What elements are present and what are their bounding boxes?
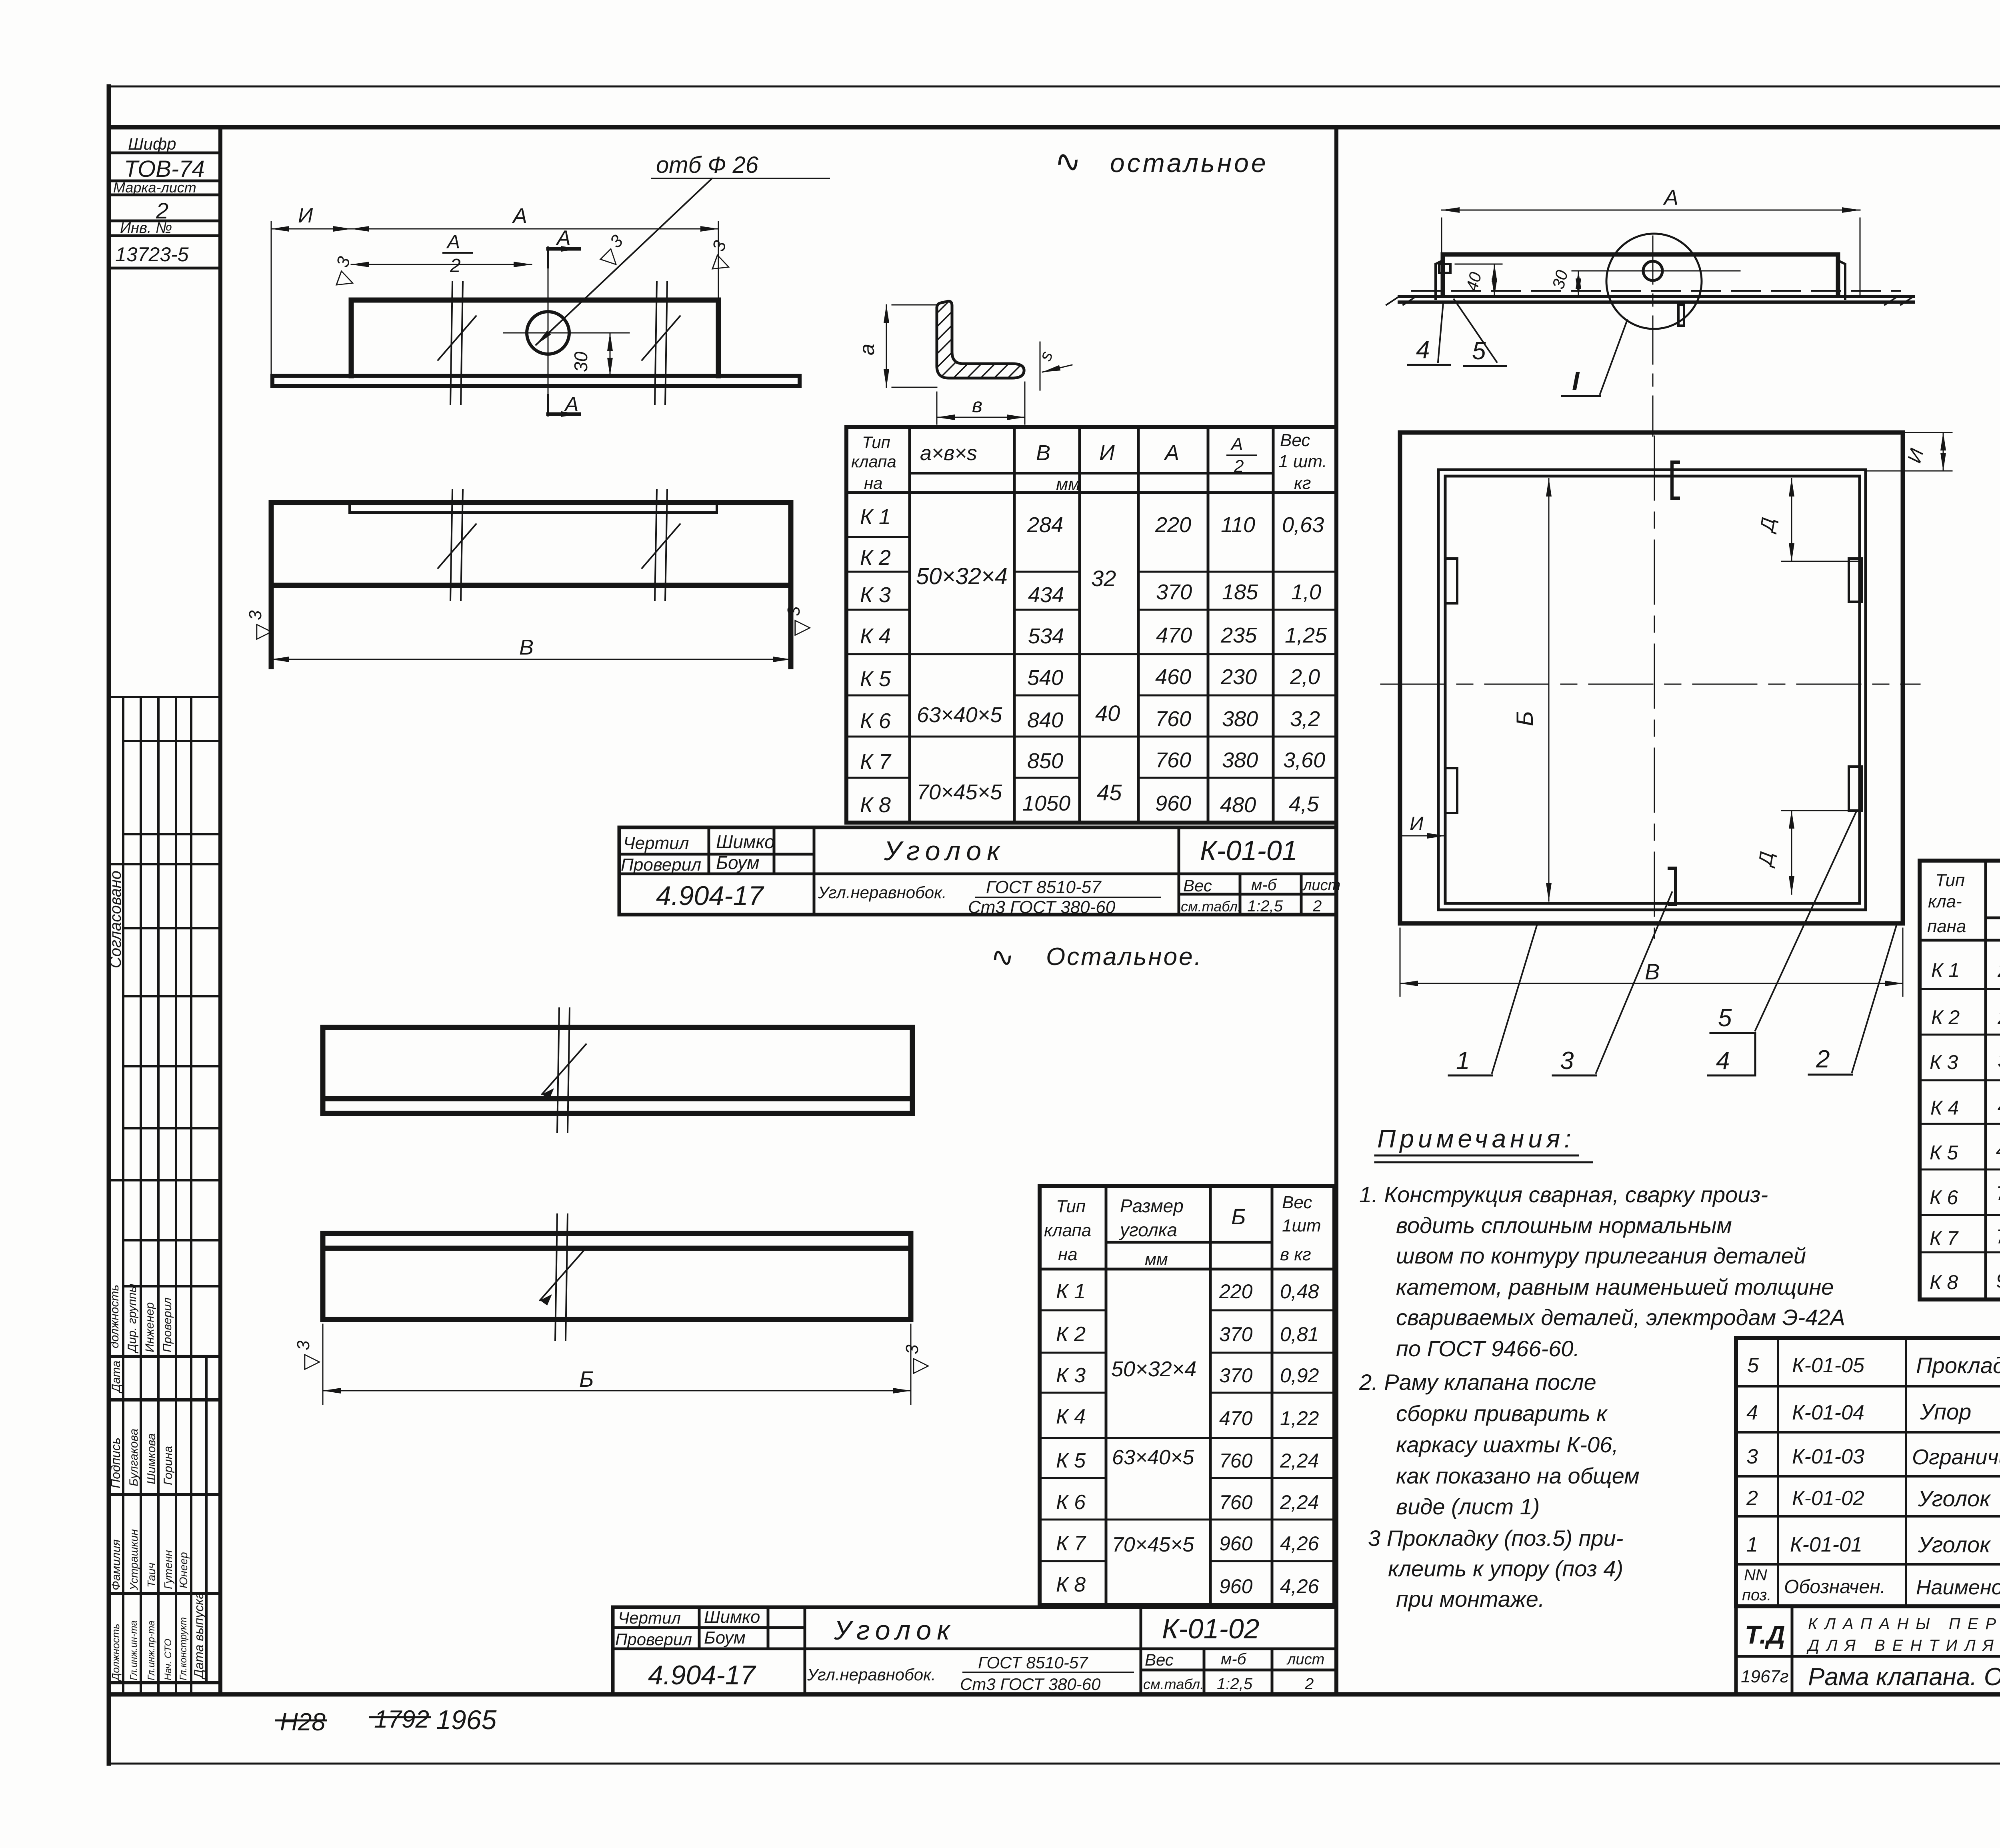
cross-section dimension s [1035, 342, 1072, 390]
square clip bottom center [1669, 868, 1676, 904]
center divider [1334, 127, 1338, 1694]
svg-text:4.904-17: 4.904-17 [656, 881, 764, 911]
svg-text:Подпись: Подпись [108, 1438, 123, 1488]
svg-text:катетом, равным наименьшей тол: катетом, равным наименьшей толщине [1396, 1274, 1834, 1299]
square callout 3 [1553, 892, 1672, 1075]
svg-text:К 2: К 2 [1056, 1323, 1086, 1346]
svg-text:остальное: остальное [1110, 148, 1268, 178]
square dimension И bottom left [1400, 813, 1445, 836]
svg-text:370: 370 [1219, 1323, 1253, 1345]
svg-text:5: 5 [1747, 1354, 1759, 1377]
svg-text:К 5: К 5 [860, 667, 891, 691]
svg-text:2: 2 [1816, 1045, 1830, 1073]
svg-text:м-б: м-б [1251, 876, 1277, 894]
svg-text:К 4: К 4 [1056, 1405, 1086, 1428]
svg-text:30: 30 [570, 351, 591, 372]
svg-text:И: И [298, 204, 313, 227]
svg-text:63×40×5: 63×40×5 [917, 703, 1002, 727]
svg-text:Размер: Размер [1120, 1195, 1184, 1216]
svg-text:1965: 1965 [436, 1705, 496, 1735]
view1 section marker А bottom [548, 393, 579, 416]
view2 dimension В [271, 635, 791, 659]
square dimension Д bottom [1754, 811, 1849, 894]
elevation callout I label [1562, 320, 1627, 396]
svg-text:1050: 1050 [1022, 791, 1070, 815]
svg-text:50×32×4: 50×32×4 [916, 563, 1008, 589]
svg-text:380: 380 [1222, 748, 1258, 772]
svg-text:960: 960 [1219, 1575, 1253, 1598]
svg-text:пана: пана [1927, 917, 1966, 936]
svg-text:Уголок: Уголок [884, 836, 1005, 866]
elevation flange hatch ends [1386, 296, 1914, 305]
svg-text:220: 220 [1997, 959, 2000, 981]
svg-text:К 6: К 6 [1930, 1186, 1958, 1209]
svg-text:Булгакова: Булгакова [127, 1429, 140, 1486]
svg-text:уголка: уголка [1119, 1219, 1177, 1240]
svg-text:К 3: К 3 [1056, 1364, 1086, 1387]
svg-text:К 6: К 6 [1056, 1491, 1086, 1514]
svg-text:К-01-03: К-01-03 [1792, 1445, 1864, 1468]
svg-text:К-01-01: К-01-01 [1790, 1533, 1862, 1556]
elevation body [1443, 254, 1838, 296]
svg-text:клапа: клапа [1044, 1221, 1091, 1240]
svg-text:каркасу шахты К-06,: каркасу шахты К-06, [1396, 1432, 1618, 1457]
svg-text:К 1: К 1 [1931, 959, 1960, 981]
note остальное (top) [1052, 142, 1268, 180]
cross-section L shape hatched [937, 301, 1024, 378]
svg-text:Инженер: Инженер [143, 1302, 156, 1352]
svg-text:Обозначен.: Обозначен. [1784, 1576, 1886, 1598]
svg-text:мм: мм [1056, 475, 1080, 494]
svg-text:К 6: К 6 [860, 709, 891, 733]
square dimension Д top [1756, 479, 1860, 561]
svg-text:Боум: Боум [704, 1628, 746, 1648]
svg-text:Вес: Вес [1282, 1193, 1312, 1212]
svg-text:В: В [1036, 441, 1050, 465]
svg-text:960: 960 [1219, 1532, 1253, 1555]
svg-text:2: 2 [1312, 897, 1322, 915]
svg-text:1: 1 [1456, 1047, 1470, 1075]
cross-section dimension в [937, 382, 1025, 424]
svg-text:534: 534 [1028, 624, 1064, 648]
svg-text:кг: кг [1294, 473, 1311, 493]
svg-text:К 4: К 4 [1930, 1097, 1959, 1119]
svg-text:370: 370 [1998, 1049, 2000, 1072]
svg-text:∿: ∿ [988, 940, 1016, 974]
svg-text:Таич: Таич [145, 1563, 158, 1588]
svg-text:по ГОСТ 9466-60.: по ГОСТ 9466-60. [1396, 1336, 1580, 1361]
svg-text:К 3: К 3 [1930, 1051, 1958, 1073]
svg-text:Упор: Упор [1920, 1399, 1971, 1424]
svg-text:В: В [519, 635, 534, 659]
svg-text:3: 3 [246, 610, 265, 620]
svg-text:220: 220 [1997, 1006, 2000, 1029]
cross-section dimension a [856, 305, 937, 387]
svg-text:К-01-01: К-01-01 [1200, 835, 1298, 866]
view1 section marker А top [548, 226, 579, 267]
svg-text:Остальное.: Остальное. [1046, 943, 1203, 971]
svg-text:Б: Б [1231, 1204, 1246, 1229]
view1 surface mark ∇3 right [702, 238, 739, 276]
table1 header band lines [846, 473, 1336, 493]
svg-text:370: 370 [1156, 580, 1192, 604]
svg-text:Т.Д: Т.Д [1745, 1620, 1785, 1649]
svg-text:1 шт.: 1 шт. [1278, 452, 1327, 471]
view1 part body outline [351, 300, 718, 376]
left signature column table [107, 697, 220, 1694]
square outer [1400, 432, 1903, 923]
svg-text:470: 470 [1998, 1095, 2000, 1117]
svg-text:отб Ф 26: отб Ф 26 [656, 152, 759, 178]
svg-text:3: 3 [1746, 1445, 1758, 1468]
svg-text:540: 540 [1027, 666, 1063, 690]
svg-text:швом по контуру прилегания дет: швом по контуру прилегания деталей [1396, 1243, 1806, 1268]
svg-text:0,92: 0,92 [1280, 1364, 1319, 1387]
svg-text:ГОСТ 8510-57: ГОСТ 8510-57 [978, 1653, 1088, 1672]
svg-text:▽: ▽ [251, 623, 275, 640]
svg-text:Горина: Горина [162, 1446, 175, 1485]
view2 outline [271, 503, 791, 667]
bar B break marks [540, 1214, 584, 1340]
svg-text:2,24: 2,24 [1280, 1450, 1319, 1472]
stamp box top-left (Шифр / ТОВ-74 / Марка-лист / 2 / Инв № / 13723-5) [109, 134, 220, 268]
svg-text:4,26: 4,26 [1280, 1575, 1319, 1598]
svg-text:760: 760 [1996, 1182, 2000, 1205]
svg-text:Чертил: Чертил [623, 833, 689, 853]
svg-text:А: А [1663, 186, 1678, 210]
svg-text:сборки приварить к: сборки приварить к [1396, 1401, 1608, 1426]
svg-text:1,0: 1,0 [1291, 580, 1321, 604]
square stop lower-left [1445, 768, 1457, 813]
svg-text:мм: мм [1145, 1250, 1168, 1269]
svg-text:Должность: Должность [110, 1624, 122, 1682]
svg-text:0,48: 0,48 [1280, 1280, 1319, 1303]
svg-text:2: 2 [1234, 456, 1244, 476]
svg-text:лист: лист [1302, 877, 1340, 894]
svg-text:960: 960 [1996, 1269, 2000, 1292]
svg-text:1: 1 [1746, 1533, 1758, 1556]
square stop lower-right [1849, 767, 1862, 811]
elevation callout 5 [1454, 299, 1506, 366]
svg-text:70×45×5: 70×45×5 [917, 780, 1002, 804]
svg-text:50×32×4: 50×32×4 [1111, 1357, 1196, 1381]
svg-text:110: 110 [1221, 513, 1255, 537]
svg-text:I: I [1572, 366, 1580, 396]
svg-text:284: 284 [1027, 513, 1063, 537]
svg-text:Гутенн: Гутенн [162, 1550, 174, 1589]
svg-text:К 1: К 1 [1056, 1280, 1086, 1303]
svg-text:760: 760 [1219, 1491, 1253, 1514]
bar B half-length thick line [323, 1317, 615, 1322]
svg-text:см.табл.: см.табл. [1143, 1676, 1204, 1692]
svg-text:1шт: 1шт [1282, 1216, 1321, 1235]
svg-text:Проверил: Проверил [615, 1630, 692, 1649]
view1 leader отб Ф26 [536, 152, 829, 345]
svg-text:480: 480 [1220, 793, 1256, 817]
svg-text:Шимкова: Шимкова [145, 1434, 158, 1484]
view1 surface mark ∇3 left [326, 254, 363, 292]
svg-text:А: А [1230, 434, 1243, 454]
elevation dimension А [1442, 186, 1860, 296]
svg-text:5: 5 [1718, 1004, 1732, 1032]
drawing area left boundary [218, 127, 222, 1694]
view1 centerlines [504, 248, 629, 414]
svg-text:Ограничитель: Ограничитель [1912, 1445, 2000, 1469]
svg-text:на: на [864, 474, 882, 493]
view2 step line [350, 503, 717, 513]
svg-text:5: 5 [1472, 337, 1486, 365]
svg-text:К 2: К 2 [860, 546, 891, 570]
elevation right tab [1838, 260, 1845, 299]
svg-text:Вес: Вес [1145, 1650, 1174, 1669]
svg-text:К 7: К 7 [1056, 1532, 1086, 1555]
bar B dimension Б [323, 1324, 911, 1404]
svg-text:220: 220 [1219, 1280, 1253, 1303]
view1 dimension 30 [560, 333, 624, 376]
svg-text:2: 2 [1746, 1487, 1758, 1510]
square clip top center [1672, 462, 1678, 498]
svg-text:4,5: 4,5 [1289, 792, 1319, 816]
svg-text:760: 760 [1155, 748, 1191, 772]
svg-text:КЛАПАНЫ ПЕРЕКИДНЫЕ УТЕПЛЕНН: КЛАПАНЫ ПЕРЕКИДНЫЕ УТЕПЛЕННЫЕ [1808, 1615, 2000, 1633]
elevation dimension 40 [1455, 264, 1502, 296]
svg-text:И: И [1410, 813, 1424, 835]
svg-text:на: на [1058, 1245, 1078, 1264]
svg-text:м-б: м-б [1221, 1650, 1247, 1668]
svg-text:1. Конструкция сварная, сварк: 1. Конструкция сварная, сварку произ- [1359, 1182, 1768, 1207]
square dimension Б [1512, 479, 1549, 901]
svg-text:1:2,5: 1:2,5 [1217, 1675, 1253, 1693]
svg-text:Шимко: Шимко [704, 1607, 760, 1627]
svg-text:клеить к упору (поз 4): клеить к упору (поз 4) [1388, 1556, 1623, 1581]
view1 bottom flange band [272, 376, 800, 386]
svg-text:К-01-04: К-01-04 [1792, 1401, 1864, 1424]
svg-text:поз.: поз. [1742, 1586, 1772, 1604]
svg-text:Б: Б [1512, 711, 1538, 726]
svg-text:а×в×s: а×в×s [920, 442, 977, 465]
bar B surface mark ∇3 right [902, 1344, 932, 1374]
svg-text:А: А [556, 226, 571, 250]
svg-text:Боум: Боум [716, 852, 760, 873]
svg-text:при монтаже.: при монтаже. [1396, 1586, 1544, 1612]
svg-text:А: А [512, 204, 527, 228]
svg-text:Вес: Вес [1183, 876, 1212, 895]
svg-text:0,63: 0,63 [1282, 513, 1324, 537]
svg-text:3,2: 3,2 [1290, 707, 1320, 731]
svg-text:Уголок: Уголок [834, 1615, 955, 1646]
svg-text:▽: ▽ [789, 619, 813, 636]
svg-text:45: 45 [1097, 780, 1122, 805]
svg-text:К 4: К 4 [860, 624, 891, 648]
elevation dashed bottom line [1412, 290, 1900, 292]
svg-text:460: 460 [1996, 1139, 2000, 1161]
table1 row lines [846, 537, 1336, 778]
view1 dimension И [271, 204, 351, 386]
square stop upper-left [1445, 559, 1457, 603]
svg-text:К-01-02: К-01-02 [1792, 1487, 1864, 1510]
svg-text:К 5: К 5 [1056, 1449, 1086, 1472]
svg-text:К 8: К 8 [860, 793, 891, 817]
svg-text:434: 434 [1028, 583, 1064, 607]
svg-text:13723-5: 13723-5 [115, 243, 189, 266]
svg-text:И: И [1099, 441, 1115, 465]
svg-text:Согласовано: Согласовано [107, 871, 124, 968]
elevation flange band [1399, 296, 1914, 302]
svg-text:Дир. группы: Дир. группы [126, 1283, 139, 1353]
svg-text:185: 185 [1222, 580, 1258, 604]
square callout 2 [1809, 924, 1897, 1075]
square callout 5 [1710, 812, 1856, 1033]
svg-text:Проверил: Проверил [621, 855, 701, 875]
svg-text:∿: ∿ [1052, 142, 1084, 180]
svg-text:А: А [1164, 441, 1179, 465]
svg-text:Примечания:: Примечания: [1377, 1124, 1575, 1153]
svg-text:230: 230 [1220, 665, 1257, 689]
svg-text:Наименование: Наименование [1916, 1576, 2000, 1599]
view1 surface mark ∇3 on leader [592, 231, 634, 273]
svg-text:Гл.инж.ин-та: Гл.инж.ин-та [128, 1620, 139, 1680]
svg-text:ТОВ-74: ТОВ-74 [124, 156, 205, 182]
svg-text:К 7: К 7 [1930, 1227, 1959, 1249]
square stop upper-right [1849, 559, 1862, 602]
svg-text:Нач. СТО: Нач. СТО [163, 1639, 174, 1680]
view2 break marks [438, 490, 680, 600]
svg-text:70×45×5: 70×45×5 [1112, 1533, 1194, 1556]
elevation detail circle I [1606, 234, 1702, 329]
elevation callout 4 [1408, 303, 1450, 365]
svg-text:1967г: 1967г [1741, 1667, 1789, 1686]
view2 surface mark ∇3 right [784, 606, 813, 636]
svg-text:3,60: 3,60 [1283, 748, 1325, 772]
bar B surface mark ∇3 left [294, 1340, 323, 1370]
svg-text:1:2,5: 1:2,5 [1247, 897, 1283, 915]
square inner double frame [1438, 470, 1866, 910]
svg-text:4: 4 [1716, 1047, 1730, 1075]
svg-text:Н28: Н28 [280, 1708, 326, 1736]
svg-text:Марка-лист: Марка-лист [113, 179, 196, 196]
svg-text:Гл.инж.пр-та: Гл.инж.пр-та [146, 1620, 157, 1680]
svg-text:Гл.конструкт: Гл.конструкт [178, 1617, 189, 1680]
svg-text:А: А [446, 231, 460, 252]
svg-text:К 8: К 8 [1056, 1573, 1086, 1596]
svg-text:Дата выпуска: Дата выпуска [192, 1592, 206, 1680]
svg-text:▽: ▽ [299, 1353, 323, 1370]
svg-text:Чертил: Чертил [618, 1608, 681, 1627]
square dimension В bottom [1400, 928, 1903, 996]
svg-text:К 5: К 5 [1930, 1141, 1958, 1164]
svg-text:840: 840 [1027, 708, 1063, 732]
svg-text:Тип: Тип [1935, 871, 1965, 890]
elevation left tab [1436, 260, 1450, 299]
svg-text:850: 850 [1027, 749, 1063, 773]
view1 hole circle [527, 312, 569, 354]
svg-text:Инв. №: Инв. № [120, 220, 172, 236]
svg-text:760: 760 [1155, 707, 1191, 731]
view1 break marks [438, 282, 680, 404]
svg-text:2,24: 2,24 [1280, 1491, 1319, 1514]
svg-text:Прокладка: Прокладка [1916, 1353, 2000, 1378]
svg-text:4.904-17: 4.904-17 [648, 1660, 756, 1690]
svg-text:3: 3 [784, 606, 804, 616]
svg-text:2: 2 [450, 255, 461, 276]
handwritten Н28 1792 1965 [276, 1705, 496, 1736]
svg-text:Тип: Тип [862, 433, 890, 452]
square dimension И top right [1866, 432, 1952, 471]
svg-text:Уголок: Уголок [1918, 1486, 1991, 1511]
svg-text:Шифр: Шифр [128, 134, 176, 153]
svg-text:▽: ▽ [908, 1357, 932, 1374]
elevation hole [1643, 261, 1662, 280]
elevation centerline vertical [1652, 236, 1654, 436]
svg-text:ГОСТ 8510-57: ГОСТ 8510-57 [986, 877, 1102, 897]
svg-text:В: В [1645, 959, 1660, 984]
svg-text:см.табл.: см.табл. [1181, 898, 1242, 915]
svg-text:Проверил: Проверил [161, 1297, 174, 1352]
svg-text:2. Раму клапана после: 2. Раму клапана после [1359, 1369, 1596, 1395]
svg-text:32: 32 [1091, 566, 1116, 591]
square callout 4 [1708, 1033, 1755, 1075]
svg-text:К 3: К 3 [860, 583, 891, 607]
svg-text:4: 4 [1416, 336, 1430, 364]
svg-text:лист: лист [1286, 1651, 1324, 1668]
svg-text:470: 470 [1156, 623, 1192, 647]
svg-text:760: 760 [1996, 1225, 2000, 1248]
elevation dimension 30 [1548, 268, 1624, 296]
svg-text:3: 3 [902, 1344, 922, 1354]
svg-text:1792: 1792 [374, 1706, 429, 1733]
square centerline horizontal [1381, 684, 1920, 685]
svg-text:4,26: 4,26 [1280, 1532, 1319, 1555]
svg-text:380: 380 [1222, 707, 1258, 731]
svg-text:760: 760 [1219, 1450, 1253, 1472]
svg-text:Юнеер: Юнеер [177, 1552, 190, 1588]
svg-text:К-01-02: К-01-02 [1162, 1613, 1260, 1644]
svg-text:кла-: кла- [1928, 892, 1962, 911]
svg-text:К 1: К 1 [860, 505, 891, 529]
table1 column lines [910, 427, 1273, 823]
svg-text:220: 220 [1155, 513, 1191, 537]
svg-text:Угл.неравнобок.: Угл.неравнобок. [807, 1665, 936, 1684]
svg-text:К 8: К 8 [1930, 1271, 1958, 1293]
svg-text:370: 370 [1219, 1364, 1253, 1387]
svg-text:водить сплошным нормальным: водить сплошным нормальным [1396, 1213, 1732, 1238]
svg-text:2: 2 [1304, 1675, 1314, 1693]
svg-text:Дата: Дата [110, 1361, 123, 1394]
square centerline vertical [1654, 436, 1655, 938]
svg-text:К 7: К 7 [860, 750, 892, 774]
svg-text:Вес: Вес [1280, 430, 1310, 450]
svg-text:свариваемых деталей, электрода: свариваемых деталей, электродам Э-42А [1396, 1305, 1845, 1330]
view2 surface mark ∇3 left [246, 610, 275, 640]
svg-text:К-01-05: К-01-05 [1792, 1354, 1865, 1377]
svg-text:в: в [972, 394, 982, 416]
svg-text:как показано на общем: как показано на общем [1396, 1463, 1640, 1488]
svg-text:0,81: 0,81 [1280, 1323, 1319, 1345]
svg-text:А: А [564, 393, 579, 416]
square callout 1 [1449, 924, 1537, 1075]
svg-text:3 Прокладку (поз.5) при-: 3 Прокладку (поз.5) при- [1368, 1526, 1623, 1551]
svg-text:Шимко: Шимко [716, 831, 775, 852]
svg-text:в кг: в кг [1280, 1245, 1311, 1264]
svg-text:Устрашкин: Устрашкин [128, 1529, 140, 1591]
svg-text:460: 460 [1155, 665, 1191, 689]
svg-text:а: а [856, 344, 879, 355]
svg-text:Б: Б [579, 1366, 594, 1392]
svg-text:470: 470 [1219, 1407, 1253, 1430]
svg-text:63×40×5: 63×40×5 [1112, 1446, 1194, 1469]
svg-text:К 2: К 2 [1931, 1006, 1960, 1029]
svg-text:Ст3 ГОСТ 380-60: Ст3 ГОСТ 380-60 [960, 1675, 1101, 1694]
